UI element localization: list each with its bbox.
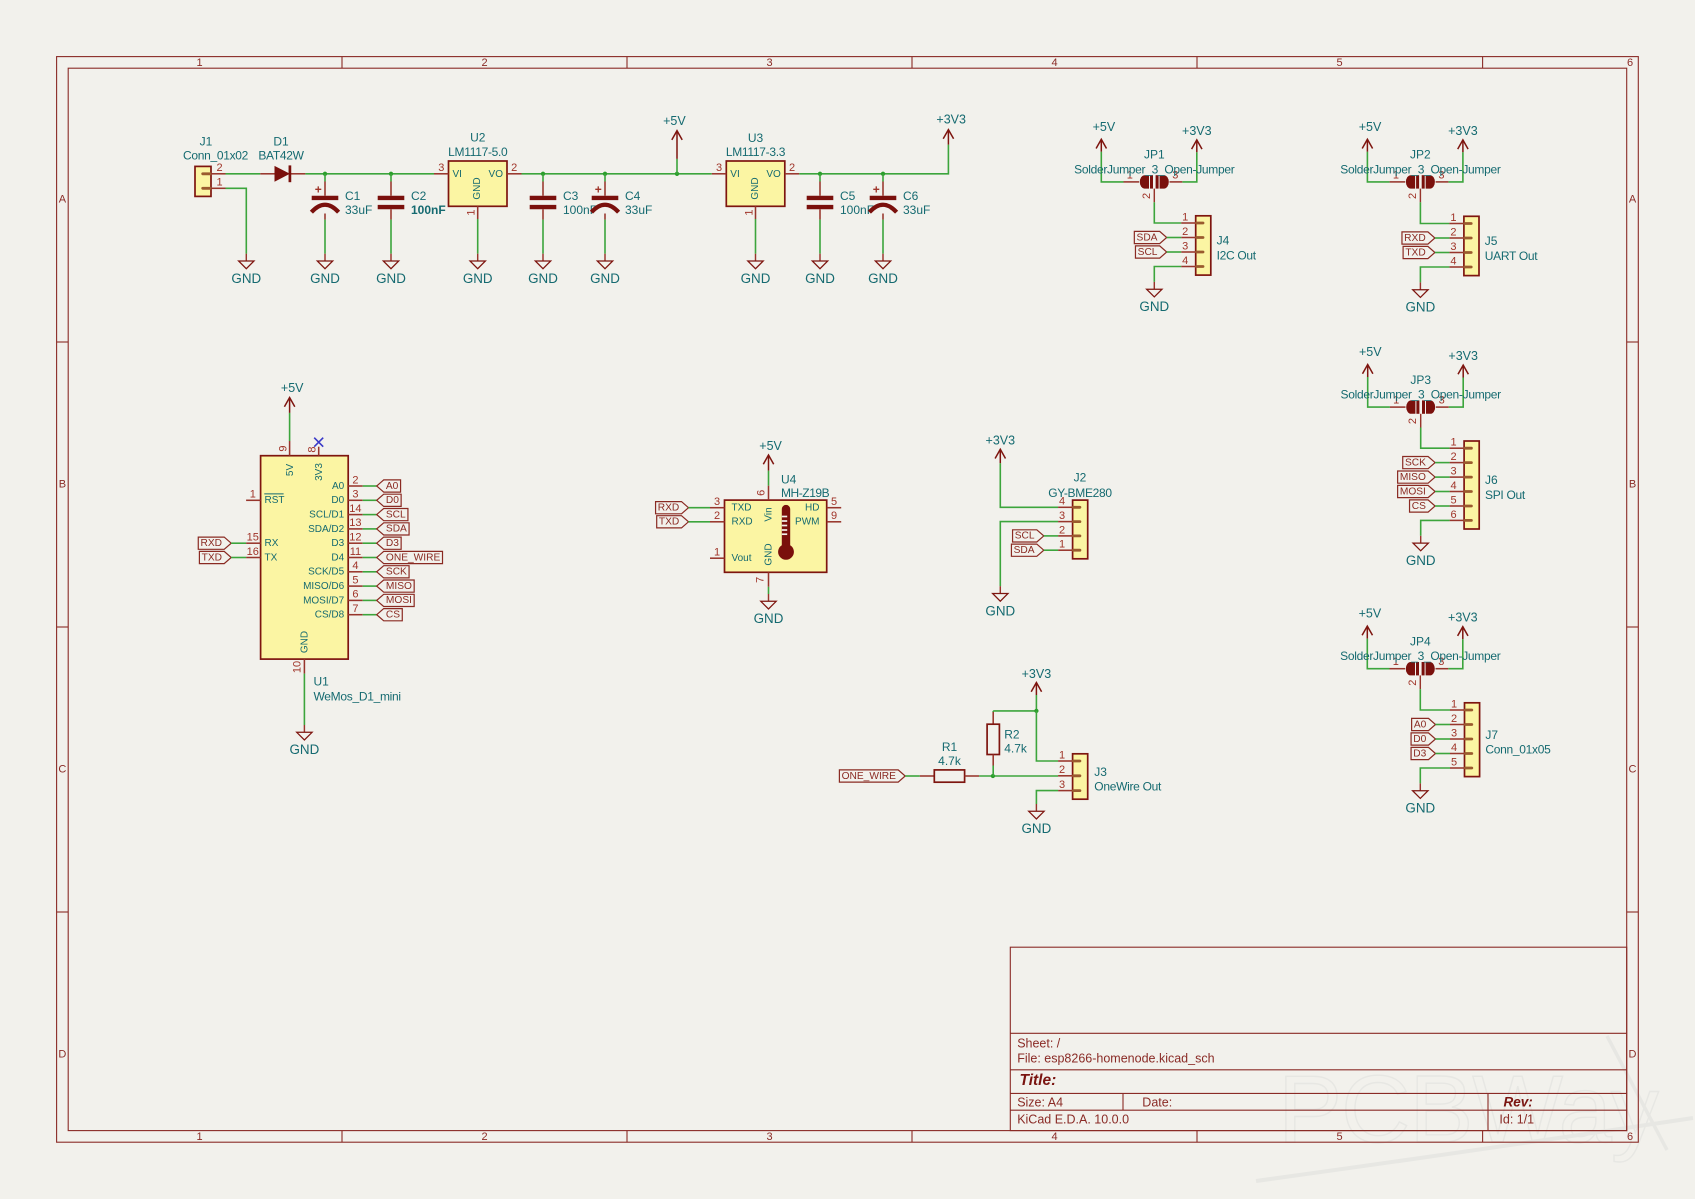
solder jumper JP2 <box>1390 181 1406 183</box>
svg-text:J7: J7 <box>1485 728 1498 742</box>
svg-text:VI: VI <box>453 169 462 180</box>
svg-text:5: 5 <box>1451 756 1457 768</box>
global label SCK (J6) <box>1403 457 1435 469</box>
wire U2 GND pin <box>477 219 479 254</box>
global label RXD (U1) <box>198 537 231 549</box>
svg-text:1: 1 <box>714 547 720 559</box>
ground (U4) <box>768 594 770 601</box>
svg-text:1: 1 <box>1059 539 1065 551</box>
wire J2.3 to GND <box>1000 522 1058 587</box>
svg-text:1: 1 <box>1182 211 1188 223</box>
svg-text:+5V: +5V <box>1359 120 1382 134</box>
wire D0 to J7 <box>1436 738 1451 740</box>
svg-text:TXD: TXD <box>732 503 752 514</box>
sensor U4 MH-Z19B <box>725 500 827 572</box>
global label CS <box>377 609 403 621</box>
svg-text:D: D <box>58 1049 66 1061</box>
svg-text:4.7k: 4.7k <box>938 754 962 768</box>
wire SCL to J4 <box>1167 251 1182 253</box>
svg-text:TX: TX <box>265 552 278 563</box>
resistor R1 4.7k <box>920 775 935 777</box>
wire MOSI to J6 <box>1435 491 1450 493</box>
svg-text:3: 3 <box>1059 510 1065 522</box>
svg-text:1: 1 <box>466 209 478 215</box>
svg-text:GND: GND <box>1139 299 1169 314</box>
ground (C3) <box>542 254 544 261</box>
ground (U2) <box>477 254 479 261</box>
connector J3 OneWire Out <box>1073 754 1088 799</box>
svg-text:1: 1 <box>196 1131 202 1143</box>
svg-text:GND: GND <box>868 271 898 286</box>
global label A0 (J7) <box>1412 718 1436 730</box>
svg-text:4: 4 <box>1051 1131 1057 1143</box>
svg-text:15: 15 <box>247 532 259 544</box>
svg-text:6: 6 <box>756 490 768 496</box>
svg-text:1: 1 <box>196 57 202 69</box>
svg-text:100nF: 100nF <box>411 203 446 217</box>
title block <box>1010 947 1626 1130</box>
svg-text:D1: D1 <box>273 135 289 149</box>
svg-text:2: 2 <box>1059 764 1065 776</box>
junction at C1 <box>323 172 327 176</box>
wire J7.5 to GND <box>1420 768 1450 783</box>
svg-text:A: A <box>59 194 67 206</box>
svg-text:MOSI: MOSI <box>386 595 412 606</box>
svg-text:B: B <box>1629 479 1636 491</box>
svg-text:+5V: +5V <box>1359 607 1382 621</box>
svg-text:D0: D0 <box>331 495 344 506</box>
regulator U3 LM1117-3.3 <box>726 161 785 206</box>
connector J5 <box>1464 216 1479 275</box>
svg-text:LM1117-3.3: LM1117-3.3 <box>726 145 786 159</box>
svg-text:GND: GND <box>231 271 261 286</box>
svg-text:1: 1 <box>1059 749 1065 761</box>
svg-text:3: 3 <box>1182 240 1188 252</box>
svg-text:4: 4 <box>352 560 358 572</box>
wire U1 MOSI/D7 <box>363 599 377 601</box>
wire U1 D4 <box>363 557 377 559</box>
svg-text:3: 3 <box>1451 466 1457 478</box>
capacitor C3 <box>542 174 544 182</box>
regulator U2 LM1117-5.0 <box>449 161 508 206</box>
junction at C3 <box>541 172 545 176</box>
svg-text:+: + <box>873 182 880 196</box>
svg-text:D: D <box>1629 1049 1637 1061</box>
svg-text:2: 2 <box>481 57 487 69</box>
svg-text:CS: CS <box>1412 501 1426 512</box>
ground (C1) <box>324 254 326 261</box>
global label D0 <box>377 494 401 506</box>
capacitor C1 <box>324 174 326 182</box>
svg-text:2: 2 <box>1407 680 1419 686</box>
wire +5V to U1 5V pin <box>289 413 291 441</box>
svg-text:Title:: Title: <box>1020 1072 1057 1089</box>
svg-text:WeMos_D1_mini: WeMos_D1_mini <box>314 689 401 703</box>
svg-text:D3: D3 <box>1413 748 1426 759</box>
wire RXD to U4 TXD <box>689 507 711 509</box>
svg-text:5: 5 <box>352 574 358 586</box>
global label TXD (J5) <box>1403 246 1435 258</box>
svg-text:SolderJumper_3_Open-Jumper: SolderJumper_3_Open-Jumper <box>1074 162 1235 176</box>
svg-text:SolderJumper_3_Open-Jumper: SolderJumper_3_Open-Jumper <box>1340 162 1501 176</box>
ground (J6) <box>1420 536 1422 543</box>
svg-text:RST: RST <box>265 495 285 506</box>
svg-text:GND: GND <box>1022 821 1052 836</box>
svg-text:2: 2 <box>511 162 517 174</box>
svg-text:U2: U2 <box>470 130 486 144</box>
svg-text:J6: J6 <box>1485 473 1498 487</box>
global label A0 <box>377 480 401 492</box>
connector J2 GY-BME280 <box>1073 500 1088 559</box>
svg-text:1: 1 <box>250 489 256 501</box>
global label ONE_WIRE <box>377 551 443 563</box>
svg-text:2: 2 <box>1450 226 1456 238</box>
svg-text:4: 4 <box>1051 57 1057 69</box>
svg-text:C: C <box>58 764 66 776</box>
svg-text:SDA: SDA <box>1014 545 1035 556</box>
svg-text:2: 2 <box>481 1131 487 1143</box>
svg-text:J4: J4 <box>1217 234 1230 248</box>
svg-text:MH-Z19B: MH-Z19B <box>781 486 830 500</box>
svg-text:10: 10 <box>292 661 304 673</box>
svg-text:U1: U1 <box>314 675 330 689</box>
svg-text:3: 3 <box>352 489 358 501</box>
svg-text:GND: GND <box>290 742 320 757</box>
svg-text:4: 4 <box>1450 255 1456 267</box>
svg-text:2: 2 <box>1182 226 1188 238</box>
svg-text:MISO: MISO <box>1400 472 1426 483</box>
svg-text:5V: 5V <box>285 464 296 477</box>
svg-text:3: 3 <box>1059 779 1065 791</box>
svg-text:1: 1 <box>1451 698 1457 710</box>
wire JP3.2 to J6.1 <box>1421 428 1450 449</box>
wire U4 GND pin <box>768 587 770 594</box>
ground (J4) <box>1153 282 1155 289</box>
wire +3V3 to J2.4 <box>1000 463 1058 507</box>
svg-text:D4: D4 <box>331 552 344 563</box>
wire R1 to J3.2 <box>979 775 1058 777</box>
global label CS (J6) <box>1410 500 1436 512</box>
svg-text:C1: C1 <box>345 189 361 203</box>
svg-text:2: 2 <box>714 510 720 522</box>
svg-text:3: 3 <box>716 162 722 174</box>
svg-text:SCK: SCK <box>1405 457 1426 468</box>
svg-text:Conn_01x05: Conn_01x05 <box>1485 743 1551 757</box>
wire U1 SDA/D2 <box>363 528 377 530</box>
svg-text:GND: GND <box>376 271 406 286</box>
wire C6 to GND <box>882 220 884 254</box>
svg-text:Vin: Vin <box>764 507 775 521</box>
global label MOSI <box>377 594 414 606</box>
svg-text:CS/D8: CS/D8 <box>315 610 345 621</box>
svg-text:3: 3 <box>766 1131 772 1143</box>
svg-text:+3V3: +3V3 <box>1022 667 1052 681</box>
svg-text:GND: GND <box>1405 801 1435 816</box>
svg-text:+3V3: +3V3 <box>1448 611 1478 625</box>
global label SDA <box>377 523 409 535</box>
svg-text:C2: C2 <box>411 189 427 203</box>
wire TXD to J5 <box>1435 252 1450 254</box>
svg-text:GND: GND <box>1406 553 1436 568</box>
svg-text:GND: GND <box>310 271 340 286</box>
solder jumper JP4 <box>1390 668 1406 670</box>
svg-text:Vout: Vout <box>732 553 752 564</box>
svg-text:RXD: RXD <box>1404 233 1426 244</box>
solder jumper JP3 <box>1390 406 1406 408</box>
svg-text:SolderJumper_3_Open-Jumper: SolderJumper_3_Open-Jumper <box>1341 388 1502 402</box>
wire J1.1 to GND <box>226 188 247 253</box>
wire U2 VO to U3 VI <box>522 173 712 175</box>
svg-text:6: 6 <box>1451 509 1457 521</box>
svg-text:33uF: 33uF <box>345 203 372 217</box>
svg-text:8: 8 <box>307 446 319 452</box>
svg-text:SCK/D5: SCK/D5 <box>308 567 345 578</box>
svg-text:33uF: 33uF <box>625 203 652 217</box>
wire ONE_WIRE to R1 <box>905 775 920 777</box>
svg-text:RXD: RXD <box>200 538 222 549</box>
svg-text:MISO/D6: MISO/D6 <box>303 581 345 592</box>
wire +5V to U4 Vin <box>768 471 770 486</box>
svg-text:SCL: SCL <box>1138 247 1158 258</box>
ground (C2) <box>390 254 392 261</box>
svg-text:2: 2 <box>1059 524 1065 536</box>
junction +3V3/J3.1 <box>1034 709 1038 713</box>
svg-text:C6: C6 <box>903 189 919 203</box>
svg-text:16: 16 <box>247 546 259 558</box>
svg-text:+5V: +5V <box>759 439 782 453</box>
svg-text:GND: GND <box>1406 300 1436 315</box>
svg-text:4: 4 <box>1451 742 1457 754</box>
svg-text:JP2: JP2 <box>1410 148 1431 162</box>
svg-text:+5V: +5V <box>1359 345 1382 359</box>
svg-text:+3V3: +3V3 <box>936 113 966 127</box>
wire JP2.2 to J5.1 <box>1420 202 1449 223</box>
wire U1 MISO/D6 <box>363 585 377 587</box>
svg-text:1: 1 <box>1451 437 1457 449</box>
wire RXD to J5 <box>1435 237 1450 239</box>
wire U1 SCK/D5 <box>363 571 377 573</box>
capacitor C6 <box>882 174 884 182</box>
ground (C6) <box>882 254 884 261</box>
svg-text:J3: J3 <box>1094 765 1107 779</box>
svg-text:A0: A0 <box>332 481 345 492</box>
wire TXD to U1 TX <box>231 557 246 559</box>
wire U1 SCL/D1 <box>363 514 377 516</box>
wire RXD to U1 RX <box>231 542 246 544</box>
resistor R2 4.7k <box>992 712 994 724</box>
svg-text:J5: J5 <box>1485 234 1498 248</box>
svg-text:Conn_01x02: Conn_01x02 <box>183 149 249 163</box>
wire J5.4 to GND <box>1420 267 1449 282</box>
svg-text:SPI Out: SPI Out <box>1485 488 1526 502</box>
global label MOSI (J6) <box>1398 485 1435 497</box>
junction at +5V tap <box>675 172 679 176</box>
capacitor C2 <box>390 174 392 182</box>
wire SDA to J2.1 <box>1044 549 1058 551</box>
svg-text:7: 7 <box>352 603 358 615</box>
wire U1 A0 <box>363 485 377 487</box>
wire +3V3 to J3.1 <box>1036 711 1058 761</box>
U1 right pins <box>348 485 363 487</box>
connector J1 <box>195 166 211 196</box>
diode D1 BAT42W <box>260 173 275 175</box>
wire SDA to J4 <box>1167 237 1182 239</box>
global label MISO (J6) <box>1398 471 1435 483</box>
svg-text:+3V3: +3V3 <box>1182 124 1212 138</box>
svg-text:RXD: RXD <box>732 517 753 528</box>
U1 GND pin <box>303 659 305 674</box>
wire A0 to J7 <box>1436 724 1451 726</box>
wire C5 to GND <box>819 220 821 254</box>
svg-text:GND: GND <box>985 603 1015 618</box>
wire C3 to GND <box>542 220 544 254</box>
svg-text:I2C Out: I2C Out <box>1217 248 1257 262</box>
solder jumper JP1 <box>1124 181 1140 183</box>
svg-text:3: 3 <box>1451 727 1457 739</box>
svg-text:TXD: TXD <box>659 517 679 528</box>
svg-text:9: 9 <box>278 445 290 451</box>
svg-text:TXD: TXD <box>1405 247 1425 258</box>
wire TXD to U4 RXD <box>689 521 711 523</box>
capacitor C5 <box>819 174 821 182</box>
svg-text:MOSI/D7: MOSI/D7 <box>303 595 345 606</box>
svg-text:13: 13 <box>349 517 361 529</box>
svg-text:GND: GND <box>754 611 784 626</box>
svg-text:2: 2 <box>1451 713 1457 725</box>
svg-text:GND: GND <box>741 271 771 286</box>
wire U1 GND to ground <box>303 674 305 725</box>
svg-text:2: 2 <box>1407 193 1419 199</box>
svg-text:+5V: +5V <box>663 114 686 128</box>
ground (U1) <box>303 725 305 732</box>
svg-text:Rev:: Rev: <box>1504 1094 1533 1109</box>
junction at C2 <box>389 172 393 176</box>
svg-text:+3V3: +3V3 <box>1448 349 1478 363</box>
svg-text:OneWire Out: OneWire Out <box>1094 779 1162 793</box>
svg-text:14: 14 <box>349 503 361 515</box>
wire R2 top to +3V3 <box>993 710 1036 712</box>
svg-text:GND: GND <box>463 271 493 286</box>
ground (C4) <box>604 254 606 261</box>
wire J6.6 to GND <box>1421 520 1450 535</box>
global label MISO <box>377 580 414 592</box>
junction at C5 <box>818 172 822 176</box>
global label D3 (J7) <box>1411 747 1435 759</box>
svg-text:VO: VO <box>766 169 781 180</box>
wire JP4.2 to J7.1 <box>1420 689 1450 710</box>
svg-text:LM1117-5.0: LM1117-5.0 <box>448 145 508 159</box>
connector J7 <box>1465 703 1480 777</box>
svg-text:4: 4 <box>1182 255 1188 267</box>
svg-text:C: C <box>1629 764 1637 776</box>
ground (J2) <box>999 586 1001 593</box>
wire CS to J6 <box>1435 505 1450 507</box>
svg-text:TXD: TXD <box>202 552 222 563</box>
svg-text:SDA: SDA <box>386 524 407 535</box>
svg-text:GND: GND <box>300 631 311 653</box>
svg-text:SolderJumper_3_Open-Jumper: SolderJumper_3_Open-Jumper <box>1340 649 1501 663</box>
global label SCL <box>377 509 408 521</box>
svg-text:Id: 1/1: Id: 1/1 <box>1499 1112 1534 1126</box>
wire C4 to GND <box>604 220 606 254</box>
wire U1 CS/D8 <box>363 614 377 616</box>
svg-text:SCL/D1: SCL/D1 <box>309 510 344 521</box>
svg-text:MISO: MISO <box>386 581 412 592</box>
svg-text:GY-BME280: GY-BME280 <box>1048 486 1112 500</box>
wire U3 GND pin <box>755 219 757 254</box>
svg-text:PWM: PWM <box>795 517 819 528</box>
svg-text:J2: J2 <box>1074 471 1087 485</box>
wire J3.3 to GND <box>1036 791 1058 804</box>
svg-text:SDA/D2: SDA/D2 <box>308 524 345 535</box>
wire SCK to J6 <box>1435 462 1450 464</box>
wire U1 D0 <box>363 499 377 501</box>
global label SCL (J4) <box>1135 246 1166 258</box>
global label TXD (U1) <box>199 551 231 563</box>
svg-text:GND: GND <box>750 177 761 199</box>
svg-text:+5V: +5V <box>281 381 304 395</box>
global label SCK <box>377 566 409 578</box>
svg-text:C4: C4 <box>625 189 641 203</box>
svg-text:5: 5 <box>1336 1131 1342 1143</box>
svg-text:5: 5 <box>1336 57 1342 69</box>
svg-text:A0: A0 <box>1414 719 1427 730</box>
svg-text:U3: U3 <box>748 131 764 145</box>
wire J1.2 to D1 anode <box>226 173 261 175</box>
svg-text:SCL: SCL <box>386 509 406 520</box>
global label TXD (U4) <box>657 516 689 528</box>
wire SCL to J2.2 <box>1044 535 1058 537</box>
junction at C4 <box>603 172 607 176</box>
svg-text:D3: D3 <box>386 538 399 549</box>
svg-text:C5: C5 <box>840 189 856 203</box>
svg-text:VI: VI <box>730 169 739 180</box>
svg-text:2: 2 <box>1451 451 1457 463</box>
svg-text:Sheet: /: Sheet: / <box>1017 1037 1061 1051</box>
svg-text:6: 6 <box>1627 1131 1633 1143</box>
svg-text:D3: D3 <box>331 538 344 549</box>
svg-text:GND: GND <box>472 177 483 199</box>
wire D1 cathode to U2 VI <box>305 173 434 175</box>
svg-text:+: + <box>315 182 322 196</box>
wire C1 to GND <box>324 220 326 254</box>
svg-text:MOSI: MOSI <box>1400 486 1426 497</box>
ground (U3) <box>755 254 757 261</box>
svg-text:2: 2 <box>789 162 795 174</box>
svg-text:2: 2 <box>352 474 358 486</box>
svg-text:7: 7 <box>755 577 767 583</box>
global label ONE_WIRE <box>839 770 905 782</box>
svg-text:5: 5 <box>1451 494 1457 506</box>
connector J4 <box>1196 216 1211 275</box>
svg-text:RX: RX <box>265 538 279 549</box>
svg-text:+3V3: +3V3 <box>1448 124 1478 138</box>
svg-text:6: 6 <box>1627 57 1633 69</box>
svg-text:J1: J1 <box>200 135 213 149</box>
global label SDA (J2) <box>1011 544 1043 556</box>
svg-text:2: 2 <box>1407 418 1419 424</box>
svg-text:9: 9 <box>831 510 837 522</box>
svg-text:6: 6 <box>352 589 358 601</box>
wire MISO to J6 <box>1435 476 1450 478</box>
svg-text:3V3: 3V3 <box>314 463 325 481</box>
wire U3 VO to +3V3 <box>799 145 948 174</box>
svg-text:RXD: RXD <box>658 503 680 514</box>
svg-text:2: 2 <box>216 162 222 174</box>
global label D0 (J7) <box>1411 733 1435 745</box>
global label SCL (J2) <box>1013 530 1044 542</box>
svg-text:UART Out: UART Out <box>1485 249 1538 263</box>
